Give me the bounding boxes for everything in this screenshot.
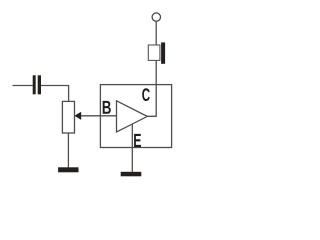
label B (base) — [103, 101, 111, 114]
earphone LS1 piezo bar — [161, 42, 165, 63]
wire: collector from triangle apex up to earphone — [147, 60, 156, 116]
ground (right, under emitter) — [121, 172, 142, 177]
ground (left, under potentiometer) — [58, 167, 78, 172]
wire: capacitor to potentiometer top — [41, 86, 69, 102]
wire: potentiometer bottom to ground — [67, 133, 69, 167]
terminal (supply connection circle) — [152, 13, 160, 21]
label E (emitter) — [134, 134, 141, 147]
label C (collector) — [142, 88, 150, 101]
wire: emitter from triangle to ground — [131, 124, 133, 172]
potentiometer R1 wiper arrow — [74, 112, 81, 120]
potentiometer R1 body — [62, 101, 74, 133]
transistor amplifier triangle — [117, 101, 148, 132]
wire: input lead to capacitor — [13, 85, 33, 87]
earphone LS1 body box — [148, 45, 160, 60]
transistor macro box U1 — [100, 85, 171, 148]
capacitor C1 — [33, 75, 41, 94]
wire: wiper to base B — [81, 115, 117, 117]
wire: earphone to terminal — [155, 21, 157, 45]
